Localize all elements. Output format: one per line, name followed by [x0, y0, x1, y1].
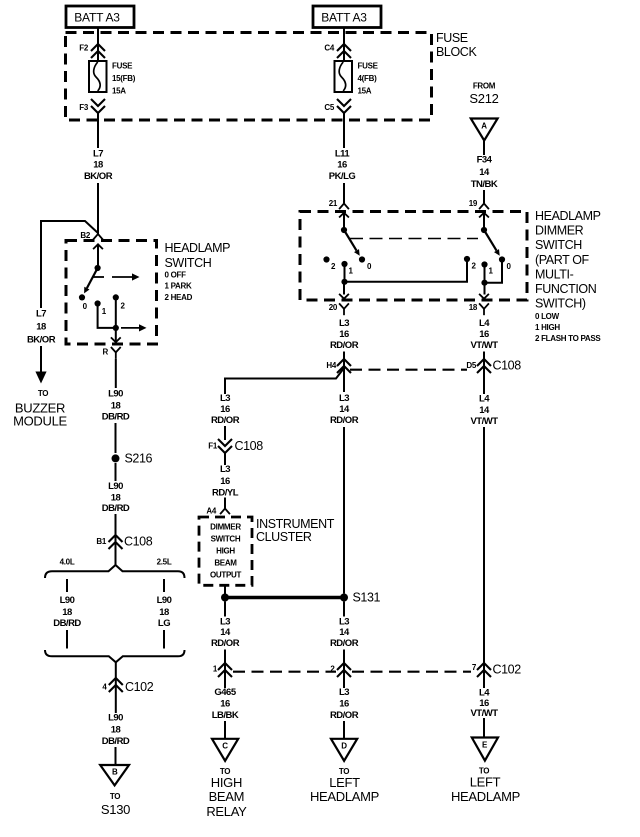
svg-text:0 LOW: 0 LOW [535, 312, 560, 321]
svg-text:BATT A3: BATT A3 [321, 10, 367, 24]
svg-text:2.5L: 2.5L [157, 558, 172, 567]
wire down [115, 692, 117, 713]
wire L11 lower segment to pin 21 [343, 183, 345, 204]
wire L7 lower segment to B2 [97, 183, 99, 234]
svg-text:20: 20 [329, 303, 338, 312]
wire to 4 C102 [115, 662, 117, 692]
pin 19 connector [479, 204, 489, 210]
svg-text:18: 18 [62, 607, 72, 618]
svg-text:L90: L90 [60, 595, 75, 606]
svg-text:SWITCH: SWITCH [165, 256, 212, 270]
wire down from F1 [224, 453, 226, 465]
wire from A down [483, 141, 485, 156]
wire contact1 to output junction [344, 264, 346, 282]
pin R connector [111, 337, 121, 342]
svg-text:15A: 15A [358, 87, 372, 96]
dashed connector line H4 to D5 [350, 369, 467, 371]
connector B1 C108 [109, 535, 123, 549]
svg-text:L3: L3 [220, 464, 230, 475]
left output junction [341, 279, 347, 285]
svg-text:L4: L4 [479, 318, 490, 329]
svg-text:16: 16 [220, 476, 230, 487]
right dimmer switch blade [484, 230, 497, 251]
wire to pin A4 [224, 498, 226, 509]
svg-text:18: 18 [93, 160, 103, 171]
instrument cluster dashed box [199, 517, 252, 585]
svg-text:L3: L3 [339, 318, 349, 329]
wire to E triangle [483, 718, 485, 738]
svg-text:C108: C108 [124, 535, 153, 549]
wire to B triangle [115, 747, 117, 765]
wire stub 4.0L [66, 579, 68, 592]
wire output to pin 18 [484, 283, 486, 295]
pin 20 connector [339, 294, 349, 299]
right dimmer pivot junction [481, 227, 487, 233]
headlamp switch dashed box [66, 241, 157, 345]
pin A4 connector [220, 509, 230, 515]
connector pin F2 [91, 44, 105, 58]
connector F1 C108 [218, 439, 232, 453]
svg-text:S216: S216 [125, 451, 153, 465]
pin 18 connector [479, 294, 489, 299]
svg-text:S130: S130 [101, 802, 130, 817]
svg-text:D: D [341, 741, 347, 750]
svg-text:VT/WT: VT/WT [470, 340, 498, 351]
right dimmer contact 0 [499, 256, 505, 262]
dashed mechanical linkage [350, 238, 478, 240]
svg-text:18: 18 [111, 725, 121, 736]
left dimmer contact 2 [323, 256, 329, 262]
headlamp switch contact 2 [113, 294, 119, 300]
svg-text:BATT A3: BATT A3 [74, 10, 120, 24]
svg-text:F34: F34 [477, 155, 493, 166]
svg-text:H4: H4 [326, 361, 336, 370]
pin 21 connector [339, 204, 349, 210]
svg-text:16: 16 [479, 329, 489, 340]
svg-text:RD/OR: RD/OR [330, 710, 359, 721]
connector 4 C102 [109, 678, 123, 692]
svg-text:SWITCH: SWITCH [211, 535, 241, 544]
svg-text:B: B [112, 768, 118, 777]
splice S216 [112, 454, 120, 462]
svg-text:16: 16 [220, 699, 230, 710]
connector H4 [337, 359, 351, 373]
svg-text:BK/OR: BK/OR [27, 335, 56, 346]
wire L11 upper segment [343, 113, 345, 148]
svg-text:RD/OR: RD/OR [330, 340, 359, 351]
connector pin C4 [337, 44, 351, 58]
svg-text:14: 14 [479, 167, 490, 178]
wire to F1 C108 [224, 426, 226, 440]
connector pin 2 [337, 663, 351, 677]
fuse block dashed box [66, 33, 432, 121]
svg-text:RD/OR: RD/OR [330, 638, 359, 649]
svg-text:TO: TO [38, 389, 48, 398]
svg-text:L4: L4 [479, 394, 490, 405]
connector pin C5 [337, 99, 351, 113]
left dimmer switch blade [344, 230, 357, 251]
svg-text:RELAY: RELAY [206, 804, 247, 819]
svg-text:2 FLASH TO PASS: 2 FLASH TO PASS [535, 334, 601, 343]
svg-text:4.0L: 4.0L [60, 558, 75, 567]
wire to pin 19 [483, 190, 485, 204]
svg-text:18: 18 [159, 607, 169, 618]
svg-text:MULTI-: MULTI- [535, 267, 574, 281]
wire: branch to buzzer module [41, 221, 99, 308]
svg-text:C5: C5 [324, 103, 334, 112]
wire middle column to pin 2 [343, 650, 345, 689]
off-page connector B triangle [100, 765, 129, 785]
svg-text:PK/LG: PK/LG [329, 171, 356, 182]
svg-text:C: C [222, 741, 228, 750]
svg-text:L90: L90 [108, 713, 123, 724]
off-page connector E triangle [472, 738, 498, 761]
wire contact2 down [115, 297, 117, 328]
svg-text:HEADLAMP: HEADLAMP [451, 789, 520, 804]
svg-text:14: 14 [479, 405, 490, 416]
wire pin19 to pivot [483, 213, 485, 230]
wire pin20 to H4 [343, 352, 345, 393]
wire contact0 to output junction [485, 260, 503, 283]
svg-text:1 HIGH: 1 HIGH [535, 323, 560, 332]
svg-text:4(FB): 4(FB) [358, 74, 378, 83]
svg-text:L3: L3 [339, 687, 349, 698]
dashed connector line C102 right [352, 671, 471, 673]
svg-text:B2: B2 [80, 231, 90, 240]
svg-text:SWITCH: SWITCH [535, 238, 582, 252]
wire to D triangle [343, 721, 345, 739]
svg-text:14: 14 [220, 627, 231, 638]
svg-text:DB/RD: DB/RD [53, 618, 81, 629]
svg-text:LEFT: LEFT [470, 774, 501, 789]
wire stub below left splice [224, 602, 226, 617]
svg-text:16: 16 [339, 329, 349, 340]
long wire middle column to S131 [343, 427, 345, 594]
right dimmer contact 1 [481, 261, 487, 267]
svg-text:LEFT: LEFT [329, 775, 360, 790]
headlamp switch contact 0 [79, 294, 85, 300]
left dimmer contact 0 [359, 256, 365, 262]
off-page connector A triangle [471, 119, 498, 141]
svg-text:L7: L7 [36, 309, 46, 320]
off-page connector D triangle [331, 739, 357, 761]
svg-text:VT/WT: VT/WT [470, 708, 498, 719]
svg-text:B1: B1 [96, 537, 106, 546]
headlamp switch contact 1 [95, 300, 101, 306]
headlamp dimmer switch dashed box [300, 212, 527, 301]
wire left column to pin 1 [224, 650, 226, 689]
svg-text:BEAM: BEAM [214, 559, 237, 568]
connector pin 7 C102 [477, 663, 491, 677]
connector pin F3 [91, 99, 105, 113]
svg-text:D5: D5 [466, 361, 476, 370]
wire: left BATT A3 down to fuse [97, 28, 99, 62]
brace split top [45, 565, 185, 578]
svg-text:16: 16 [220, 404, 230, 415]
fuse 4(FB) [335, 61, 353, 92]
svg-text:18: 18 [36, 322, 46, 333]
svg-text:14: 14 [339, 627, 350, 638]
fuse 15(FB) [89, 61, 107, 92]
svg-text:L3: L3 [220, 617, 230, 628]
svg-text:R: R [103, 348, 109, 357]
wire crossover to right switch contact 2 [345, 259, 468, 282]
svg-text:L4: L4 [479, 688, 490, 699]
wire to S216 [115, 423, 117, 453]
svg-text:BK/OR: BK/OR [84, 171, 113, 182]
wire branch to instrument cluster [225, 368, 344, 394]
svg-text:RD/OR: RD/OR [330, 415, 359, 426]
wire L7 upper segment [97, 113, 99, 148]
svg-text:16: 16 [339, 699, 349, 710]
headlamp switch pivot junction [95, 265, 101, 271]
wire stub below S131 [343, 602, 345, 617]
svg-text:L11: L11 [335, 149, 351, 160]
svg-text:RD/OR: RD/OR [211, 415, 240, 426]
wire pin18 to D5 [483, 352, 485, 395]
svg-text:15A: 15A [112, 87, 126, 96]
wire cluster output stub [224, 585, 226, 594]
svg-text:C102: C102 [125, 680, 154, 694]
svg-text:18: 18 [111, 493, 121, 504]
off-page connector C triangle [212, 739, 238, 761]
wire stub lower 4.0L [66, 630, 68, 649]
svg-text:C108: C108 [493, 359, 522, 373]
svg-text:C108: C108 [235, 439, 264, 453]
wire S216 down [115, 463, 117, 481]
svg-text:RD/YL: RD/YL [212, 488, 239, 499]
svg-text:TO: TO [110, 792, 120, 801]
wire pin21 to pivot [343, 213, 345, 230]
wire to buzzer arrow [40, 346, 42, 372]
svg-text:L90: L90 [108, 389, 123, 400]
wire: right BATT A3 down to fuse [343, 28, 345, 62]
dashed connector line C102 left [233, 671, 336, 673]
svg-text:FUSE: FUSE [112, 62, 133, 71]
svg-text:F1: F1 [208, 442, 218, 451]
long wire right column [483, 427, 485, 688]
svg-text:16: 16 [337, 160, 347, 171]
battery feed box BATT A3 (left) [66, 6, 134, 28]
svg-text:HIGH: HIGH [211, 775, 242, 790]
svg-text:HEADLAMP: HEADLAMP [310, 789, 379, 804]
wire output to pin R [115, 328, 117, 343]
wire output to pin 20 [343, 282, 345, 295]
wire to B1 C108 [115, 514, 117, 565]
svg-text:DB/RD: DB/RD [102, 412, 130, 423]
brace merge bottom [45, 650, 185, 662]
svg-text:18: 18 [111, 401, 121, 412]
svg-text:DB/RD: DB/RD [102, 503, 130, 514]
svg-text:BLOCK: BLOCK [436, 45, 477, 59]
svg-text:F3: F3 [79, 103, 89, 112]
svg-text:RD/OR: RD/OR [211, 638, 240, 649]
svg-text:LB/BK: LB/BK [212, 710, 239, 721]
svg-text:C102: C102 [493, 663, 522, 677]
svg-text:OUTPUT: OUTPUT [210, 571, 242, 580]
right output junction [481, 280, 487, 286]
svg-text:INSTRUMENT: INSTRUMENT [256, 517, 335, 531]
svg-text:L3: L3 [220, 393, 230, 404]
svg-text:FUSE: FUSE [436, 31, 468, 45]
svg-text:BEAM: BEAM [209, 789, 245, 804]
left dimmer contact 1 [341, 261, 347, 267]
arrow to buzzer module [35, 372, 46, 384]
svg-text:CLUSTER: CLUSTER [256, 530, 312, 544]
svg-text:19: 19 [469, 199, 478, 208]
svg-text:14: 14 [339, 404, 350, 415]
wire contact1 to output junction [98, 304, 116, 328]
svg-text:F2: F2 [79, 44, 89, 53]
svg-text:G465: G465 [214, 687, 236, 698]
svg-text:DIMMER: DIMMER [210, 523, 241, 532]
svg-text:L3: L3 [339, 617, 349, 628]
svg-text:FROM: FROM [473, 82, 496, 91]
connector pin 1 [218, 663, 232, 677]
svg-text:18: 18 [469, 303, 478, 312]
motion arrow lower [121, 327, 139, 329]
wire contact1 to output junction [484, 265, 486, 283]
battery feed box BATT A3 (right) [313, 6, 381, 28]
splice junction left [221, 594, 229, 602]
svg-text:A4: A4 [206, 507, 216, 516]
svg-text:1 PARK: 1 PARK [165, 282, 192, 291]
splice S131 [340, 594, 348, 602]
svg-text:S131: S131 [353, 591, 381, 605]
pin B2 connector [93, 234, 103, 240]
svg-text:FUSE: FUSE [358, 62, 379, 71]
svg-text:L3: L3 [339, 393, 349, 404]
connector D5 C108 [477, 359, 491, 373]
svg-text:HEADLAMP: HEADLAMP [165, 241, 231, 255]
svg-text:HIGH: HIGH [216, 547, 235, 556]
svg-text:VT/WT: VT/WT [470, 416, 498, 427]
svg-text:LG: LG [158, 618, 170, 629]
svg-text:DIMMER: DIMMER [535, 224, 584, 238]
svg-text:L7: L7 [93, 149, 103, 160]
wire to C triangle [224, 721, 226, 739]
wire B2 to pivot [97, 244, 99, 268]
svg-text:A: A [481, 122, 487, 131]
wire R down [115, 359, 117, 388]
svg-text:(PART OF: (PART OF [535, 253, 590, 267]
svg-text:FUNCTION: FUNCTION [535, 282, 597, 296]
svg-text:MODULE: MODULE [13, 414, 67, 429]
svg-text:C4: C4 [324, 44, 334, 53]
svg-text:S212: S212 [469, 91, 498, 106]
svg-text:21: 21 [329, 199, 338, 208]
output junction [113, 325, 119, 331]
svg-text:15(FB): 15(FB) [112, 74, 136, 83]
svg-text:L90: L90 [157, 595, 172, 606]
splice bus wire [225, 596, 344, 599]
left dimmer pivot junction [341, 227, 347, 233]
svg-text:L90: L90 [108, 481, 123, 492]
svg-text:SWITCH): SWITCH) [535, 297, 586, 311]
svg-text:HEADLAMP: HEADLAMP [535, 209, 601, 223]
svg-text:TN/BK: TN/BK [471, 179, 498, 190]
wire stub 2.5L [163, 579, 165, 592]
svg-text:0 OFF: 0 OFF [165, 270, 187, 279]
headlamp switch blade [87, 268, 98, 288]
wire stub lower 2.5L [163, 630, 165, 649]
svg-text:DB/RD: DB/RD [102, 736, 130, 747]
svg-text:2 HEAD: 2 HEAD [165, 293, 193, 302]
motion arrow upper [112, 276, 132, 278]
right dimmer contact 2 [464, 256, 470, 262]
